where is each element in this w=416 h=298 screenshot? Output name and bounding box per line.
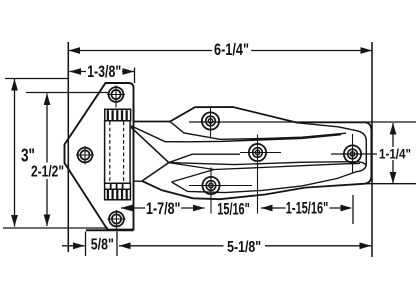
svg-text:1-3/8": 1-3/8" [87,62,121,81]
strap top arm from barrel [134,108,170,122]
svg-text:6-1/4": 6-1/4" [214,40,249,59]
hole H2 middle bracket hole [76,146,94,165]
dimension 2-1/2 line [26,93,109,227]
strap bottom pennant long diagonal from barrel [131,127,169,163]
strap barrel to point connector [133,180,142,182]
svg-text:15/16": 15/16" [217,200,250,219]
hole H3 bottom bracket hole [108,210,126,229]
strap upper rib line [169,162,366,166]
dimension row 1-7/8 15/16 1-15/16 [121,195,353,224]
barrel top knuckle band [105,109,131,121]
bracket leaf outline [65,83,134,230]
strap ridge descent to inner dart [169,163,214,170]
right extension line VR1 [371,42,373,257]
hole H6 strap right hole [331,134,377,173]
svg-text:1-7/8": 1-7/8" [146,199,181,218]
dimension 5/8 and 5-1/8 row [62,232,371,257]
svg-text:1-15/16": 1-15/16" [286,199,329,218]
dimension 1-3/8 line [70,68,135,84]
strap top pennant lower edge c1 [170,122,346,140]
strap top pennant outline and tip [170,107,371,184]
barrel body [105,121,131,184]
strap emboss upper edge and right end [296,123,366,172]
strap inner dart upper branch and rib line [172,164,361,183]
svg-text:5-1/8": 5-1/8" [227,239,261,256]
strap outer bottom edge [142,181,363,199]
bracket bottom edge thick [86,229,134,231]
strap second top line c2 [131,126,341,142]
barrel bottom knuckle band [105,183,131,200]
dimension 6-1/4 line [68,50,372,52]
dimension 1-1/4 [361,123,416,184]
strap bottom pennant point and back edge [142,163,169,181]
hole H7 strap bottom hole [189,168,252,214]
hole H1 top bracket hole [107,86,125,108]
hole H5 strap center hole [240,135,281,214]
left extension line VL1 [67,42,69,252]
dimension 3 line [3,79,108,229]
svg-text:5/8": 5/8" [91,237,114,254]
strap emboss ridge rise [169,154,240,162]
strap inner dart lower edge [172,172,357,193]
svg-text:2-1/2": 2-1/2" [31,163,64,180]
hole H4 strap top hole [189,106,416,139]
arrowheads [11,47,396,249]
svg-text:1-1/4": 1-1/4" [379,146,411,162]
